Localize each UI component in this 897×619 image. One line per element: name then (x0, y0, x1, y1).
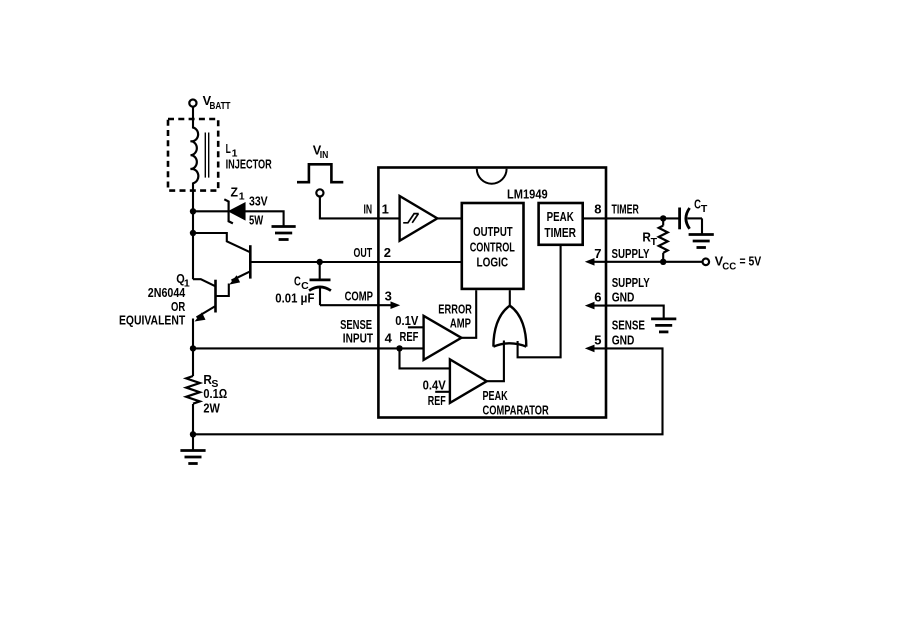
pin 6 arrowhead (585, 302, 595, 310)
svg-text:7: 7 (594, 246, 601, 261)
svg-text:CC: CC (722, 260, 736, 272)
ground (pin 6) (651, 319, 676, 332)
svg-text:TIMER: TIMER (612, 202, 640, 217)
svg-text:PEAK: PEAK (547, 209, 575, 224)
svg-text:REF: REF (400, 329, 419, 344)
svg-text:IN: IN (364, 201, 373, 216)
svg-text:0.1V: 0.1V (395, 313, 418, 328)
svg-text:0.01 μF: 0.01 μF (275, 291, 314, 306)
svg-text:IN: IN (320, 149, 329, 161)
svg-text:4: 4 (385, 330, 393, 345)
zener diode Z1 (193, 184, 268, 227)
ground (CT) (689, 235, 714, 248)
buffer (schmitt input) (400, 196, 438, 241)
svg-text:CONTROL: CONTROL (470, 240, 515, 255)
svg-text:SENSE: SENSE (612, 318, 646, 333)
svg-text:8: 8 (594, 202, 601, 217)
wire error amp output to logic (461, 290, 476, 338)
svg-text:1: 1 (382, 201, 389, 216)
node: CT junction (660, 215, 666, 221)
svg-text:INPUT: INPUT (343, 330, 373, 345)
wire junction to comparator input (400, 348, 450, 368)
wire or gate output to logic (509, 290, 511, 305)
svg-text:5W: 5W (249, 213, 264, 228)
svg-text:2W: 2W (203, 400, 220, 415)
svg-text:6: 6 (594, 290, 601, 305)
terminal VCC (703, 254, 762, 273)
wire timer to or gate input (518, 245, 561, 357)
svg-text:OUTPUT: OUTPUT (473, 224, 513, 239)
pin 5 arrowhead (585, 345, 595, 353)
node: sense junction (190, 345, 196, 351)
svg-text:0.1Ω: 0.1Ω (203, 386, 227, 401)
node: zener tap junction (190, 208, 196, 214)
node: bottom sense return junction (190, 431, 196, 437)
ground (RS bottom) (180, 434, 205, 463)
terminal VIN with pulse (297, 142, 343, 196)
wire sense return (bottom long wire) (193, 348, 663, 434)
transistor Q1 (darlington upper) (193, 233, 250, 296)
svg-text:2N6044: 2N6044 (148, 285, 186, 300)
dashed box around injector (168, 119, 218, 191)
op-amp error amp (395, 302, 472, 360)
wire schmitt to logic (437, 217, 462, 219)
wire OUT (pin 2) (250, 261, 461, 263)
resistor RT (642, 218, 667, 261)
svg-text:T: T (651, 236, 658, 248)
wire VIN to pin 1 (320, 197, 400, 219)
pin labels right (594, 202, 650, 348)
op-amp peak comparator (423, 359, 550, 417)
svg-text:COMP: COMP (345, 289, 374, 304)
svg-text:EQUIVALENT: EQUIVALENT (119, 312, 185, 327)
terminal VBATT (189, 93, 231, 112)
node: CC junction on OUT (317, 259, 323, 265)
svg-text:SUPPLY: SUPPLY (612, 275, 650, 290)
svg-text:5: 5 (594, 332, 601, 347)
svg-text:INJECTOR: INJECTOR (226, 157, 273, 172)
svg-text:GND: GND (612, 290, 635, 305)
capacitor CT (663, 197, 708, 235)
pin labels left (340, 201, 393, 345)
svg-text:SUPPLY: SUPPLY (612, 246, 650, 261)
svg-text:COMPARATOR: COMPARATOR (483, 403, 550, 418)
svg-text:Z: Z (231, 184, 239, 199)
svg-text:LM1949: LM1949 (507, 186, 548, 201)
pin 3 arrowhead (391, 301, 401, 309)
wire sense input (pin 4) (193, 347, 424, 349)
svg-text:2: 2 (384, 245, 391, 260)
wire comparator output to or gate (487, 341, 504, 382)
svg-text:LOGIC: LOGIC (477, 254, 509, 269)
wire timer to pin 8 and CT (583, 217, 664, 219)
svg-text:= 5V: = 5V (740, 254, 762, 269)
peak timer box (539, 203, 583, 245)
svg-text:3: 3 (385, 289, 392, 304)
wire pin 7 supply to VCC (593, 261, 702, 263)
resistor RS (186, 372, 227, 416)
svg-text:GND: GND (612, 332, 635, 347)
svg-text:BATT: BATT (210, 100, 231, 112)
output control logic box U1 (462, 203, 524, 289)
transistor Q1 (darlington lower) (119, 271, 216, 327)
svg-text:0.4V: 0.4V (423, 377, 446, 392)
node: error amp input junction (396, 345, 402, 351)
svg-text:OUT: OUT (354, 245, 373, 260)
node: supply junction (660, 259, 666, 265)
svg-text:AMP: AMP (450, 315, 471, 330)
svg-text:1: 1 (239, 191, 245, 203)
wire COMP (pin 3) (320, 304, 392, 306)
ground (zener) (272, 227, 296, 240)
inductor L1 (191, 128, 273, 184)
pin 7 arrowhead (585, 258, 595, 266)
wire pin 6 supply gnd (593, 306, 663, 319)
node: Q1 collector junction (190, 230, 196, 236)
IC body LM1949 (378, 168, 606, 418)
svg-text:PEAK: PEAK (483, 388, 509, 403)
svg-text:T: T (701, 203, 708, 215)
svg-text:L: L (226, 141, 231, 156)
or gate (493, 306, 526, 347)
svg-text:33V: 33V (249, 194, 268, 209)
wire zener to ground (245, 211, 284, 226)
wire VBATT rail to collectors (192, 107, 194, 129)
wire emitter to ground rail (192, 319, 194, 435)
capacitor CC (275, 262, 331, 306)
svg-text:TIMER: TIMER (544, 225, 576, 240)
svg-text:REF: REF (428, 393, 446, 408)
